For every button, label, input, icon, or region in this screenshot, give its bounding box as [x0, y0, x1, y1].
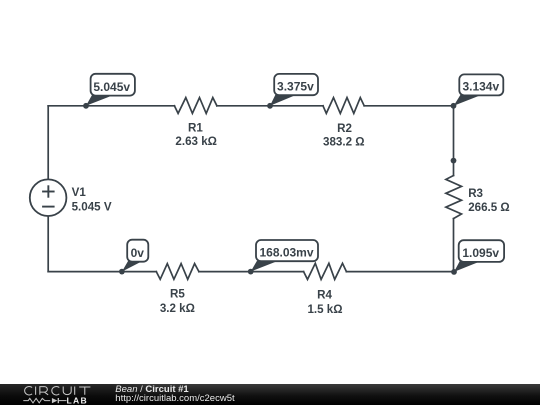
footer logo panel shade — [0, 384, 150, 405]
resistor R1 — [174, 98, 217, 114]
node junction above R3 — [451, 158, 457, 164]
footer bar — [0, 384, 540, 405]
probe callout 3.375v — [270, 74, 318, 106]
resistor R5 — [156, 264, 199, 280]
resistor R2 — [323, 98, 364, 114]
node dot 3.134v — [451, 103, 457, 109]
wire left vertical upper — [47, 106, 49, 180]
svg-text:R2: R2 — [337, 122, 352, 135]
svg-text:http://circuitlab.com/c2ecw5t: http://circuitlab.com/c2ecw5t — [115, 393, 235, 404]
svg-text:R3: R3 — [468, 187, 483, 200]
svg-text:3.375v: 3.375v — [277, 79, 314, 93]
svg-text:V1: V1 — [72, 186, 87, 199]
wire right vertical upper — [453, 106, 455, 176]
logo schematic resistor — [23, 398, 50, 403]
wire between R1 and R2 — [217, 105, 323, 107]
node dot 0v — [119, 269, 125, 275]
logo diode — [52, 398, 58, 403]
svg-text:168.03mv: 168.03mv — [259, 245, 313, 259]
svg-text:0v: 0v — [131, 246, 145, 260]
wire between R4 and R5 — [199, 271, 304, 273]
voltage source V1 — [30, 179, 67, 216]
svg-text:5.045 V: 5.045 V — [72, 201, 112, 214]
resistor R4 — [304, 263, 347, 279]
logo CIRCUIT letters — [25, 386, 91, 394]
probe callout 5.045v — [86, 74, 135, 106]
node dot 1.095v — [451, 269, 457, 275]
svg-text:5.045v: 5.045v — [93, 80, 130, 94]
wire R2 to top-right corner — [364, 105, 453, 107]
node dot 5.045v — [83, 103, 89, 109]
wire bottom left segment — [48, 271, 156, 273]
probe callout 3.134v — [454, 74, 504, 105]
wire right vertical lower — [453, 219, 455, 272]
svg-text:R4: R4 — [317, 289, 332, 302]
resistor R3 — [446, 176, 462, 219]
node dot 168.03mv — [248, 269, 254, 275]
node dot 3.375v — [267, 103, 273, 109]
svg-text:2.63 kΩ: 2.63 kΩ — [175, 135, 217, 148]
wire bottom right segment — [346, 271, 453, 273]
svg-text:3.2 kΩ: 3.2 kΩ — [160, 302, 195, 315]
svg-text:3.134v: 3.134v — [462, 80, 499, 94]
probe callout 1.095v — [454, 240, 504, 272]
svg-text:LAB: LAB — [67, 395, 89, 405]
wire left vertical lower — [47, 216, 49, 272]
svg-text:R5: R5 — [170, 288, 185, 301]
wire top-left horizontal — [48, 105, 174, 107]
svg-text:1.5 kΩ: 1.5 kΩ — [307, 303, 342, 316]
svg-text:1.095v: 1.095v — [462, 246, 499, 260]
svg-text:383.2 Ω: 383.2 Ω — [323, 135, 365, 148]
svg-text:R1: R1 — [188, 122, 203, 135]
svg-text:266.5 Ω: 266.5 Ω — [468, 201, 510, 214]
probe callout 168.03mv — [251, 240, 318, 272]
probe callout 0v — [122, 240, 148, 272]
